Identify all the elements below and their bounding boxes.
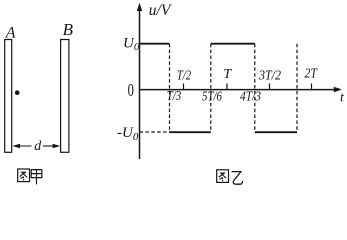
svg-text:4T/3: 4T/3 [240,90,261,105]
plate B [61,40,69,153]
svg-text:T/3: T/3 [167,89,182,104]
svg-text:T/2: T/2 [177,69,192,84]
waveform low segment 1 [170,131,211,133]
svg-text:2T: 2T [304,67,318,82]
x-axis [140,87,343,92]
tick T [226,84,228,90]
svg-text:B: B [63,20,74,39]
waveform high segment 1 [140,43,170,45]
svg-text:T: T [223,67,232,82]
waveform low segment 2 [255,131,297,133]
svg-text:u/V: u/V [149,2,172,19]
caption 图甲 [18,169,42,184]
tick 3T/2 [269,84,271,90]
svg-text:d: d [34,139,42,154]
dashed vertical at 4T/3 [254,44,256,133]
dashed vertical at 5T/6 [210,44,212,133]
dashed vertical at T/3 [169,44,171,133]
y-axis [137,3,142,159]
waveform high segment 2 [211,43,255,45]
particle dot [15,90,20,95]
caption 图乙 [217,170,243,184]
dashed vertical at 11T/6 [296,44,298,133]
d arrow right segment [43,144,60,149]
svg-text:-U0: -U0 [117,125,139,143]
svg-text:t: t [340,91,345,106]
svg-text:3T/2: 3T/2 [258,69,281,84]
svg-text:A: A [5,25,16,42]
d arrow left segment [12,144,31,149]
svg-text:5T/6: 5T/6 [202,90,222,105]
tick 2T [311,84,313,90]
plate A [5,40,12,153]
dashed -U0 level line [140,131,170,133]
svg-text:0: 0 [128,81,134,101]
svg-text:U0: U0 [123,35,140,53]
tick T/2 [183,84,185,90]
